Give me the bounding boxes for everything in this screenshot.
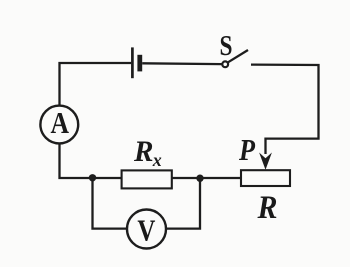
svg-text:R: R — [133, 135, 153, 168]
svg-text:P: P — [238, 132, 256, 167]
svg-text:V: V — [137, 213, 155, 248]
svg-text:A: A — [50, 105, 69, 140]
svg-text:S: S — [220, 31, 233, 62]
svg-text:x: x — [152, 150, 162, 170]
svg-text:R: R — [257, 190, 278, 226]
